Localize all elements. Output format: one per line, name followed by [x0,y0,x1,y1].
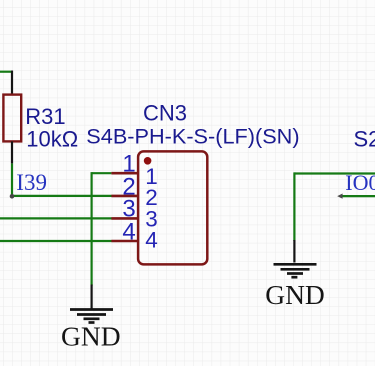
wire top-left horizontal to R31 top [0,71,12,73]
connector CN3 body [138,151,207,264]
dangling wire arrow marker [337,194,342,199]
wire vertical from pin1 net down to GND [90,172,92,285]
wire to CN3 pin 3 from left edge [0,217,112,219]
wire IO0 lower stub from right edge [342,195,375,197]
svg-text:CN3: CN3 [143,101,187,126]
wire to CN3 pin 4 from left edge [0,240,112,242]
connector CN3 pin 2 lead [111,195,138,198]
svg-text:GND: GND [265,279,325,310]
svg-text:S2: S2 [354,127,375,152]
svg-text:4: 4 [122,218,135,245]
junction corner at I39 bend [10,194,15,199]
connector CN3 pin 3 lead [111,217,138,220]
connector CN3 pin 1 lead [111,172,138,175]
wire from R31 bottom down to I39 net [11,164,13,196]
wire vertical down to GND2 [293,172,295,241]
svg-text:S4B-PH-K-S-(LF)(SN): S4B-PH-K-S-(LF)(SN) [86,123,299,148]
pin 1 polarity dot [144,157,152,165]
svg-text:GND: GND [61,321,121,352]
ground symbol GND1 bars [70,310,113,323]
resistor R31 pin 2 (bottom pin) [11,141,13,163]
svg-text:I39: I39 [16,170,47,195]
ground symbol GND1 pin [90,285,92,309]
wire to CN3 pin 1 [92,172,112,174]
svg-text:IO0: IO0 [345,170,375,195]
resistor R31 body [3,95,21,142]
svg-text:10kΩ: 10kΩ [26,126,78,151]
resistor R31 pin 1 (top pin) [11,71,13,95]
ground symbol GND2 pin [293,240,295,263]
wire IO0 upper horizontal from right edge [294,172,375,174]
ground symbol GND2 bars [274,264,317,277]
svg-text:R31: R31 [25,104,65,129]
svg-text:4: 4 [145,228,158,253]
wire I39 horizontal to CN3 pin 2 [11,195,112,197]
connector CN3 pin 4 lead [111,240,138,243]
